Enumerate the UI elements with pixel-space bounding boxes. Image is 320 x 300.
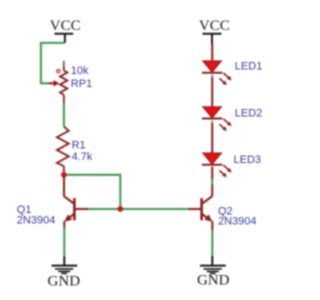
power VCC (left) (50, 18, 81, 43)
wire VCC-left to RP1 wiper (41, 43, 65, 83)
resistive body zigzag (60, 71, 67, 95)
collector lead (202, 196, 213, 204)
LED LED3 (202, 153, 232, 177)
wire LED2 cathode to LED3 anode (211, 121, 213, 153)
emitter lead (202, 214, 210, 220)
pin 1 (top) (63, 61, 65, 67)
svg-text:10k: 10k (71, 65, 89, 77)
svg-text:GND: GND (197, 273, 230, 289)
emission arrows (223, 119, 228, 124)
svg-text:LED1: LED1 (235, 61, 263, 73)
svg-text:RP1: RP1 (71, 78, 92, 90)
transistor Q2 (2N3904) (189, 196, 213, 222)
emitter arrowhead (64, 214, 72, 221)
LED LED2 (202, 107, 232, 131)
wire Q2 emitter to ground (211, 221, 213, 265)
wire LED3 cathode to Q2 collector (211, 167, 213, 197)
svg-text:2N3904: 2N3904 (17, 214, 56, 226)
base pin (74, 208, 88, 210)
wiper arrow pin 2 (49, 82, 54, 84)
collector lead (64, 196, 74, 204)
emission arrows (223, 73, 228, 78)
svg-text:LED3: LED3 (234, 154, 262, 166)
wiper indicator circle (57, 70, 60, 73)
emitter arrowhead (204, 214, 212, 221)
node A junction dot (61, 172, 67, 178)
wire node A to base node (67, 175, 121, 207)
base bar (200, 198, 203, 220)
ground (left) (48, 266, 81, 290)
junction dot (base node) (117, 206, 123, 212)
svg-text:VCC: VCC (50, 18, 81, 34)
base pin (189, 208, 202, 210)
base bar (73, 198, 76, 220)
wire base node to Q2 base (120, 208, 188, 210)
svg-text:4.7k: 4.7k (72, 151, 93, 163)
emitter lead (67, 214, 75, 220)
transistor Q1 (2N3904) (64, 196, 88, 222)
svg-text:VCC: VCC (199, 18, 230, 34)
power VCC (right) (199, 18, 230, 44)
wire LED1 cathode to LED2 anode (211, 75, 213, 107)
ground (right) (197, 266, 230, 289)
wire Q1 emitter to ground (63, 221, 65, 265)
potentiometer RP1 (49, 61, 68, 104)
svg-text:GND: GND (48, 273, 81, 289)
svg-text:2N3904: 2N3904 (218, 215, 257, 227)
wire RP1 to R1 (63, 103, 65, 126)
wire Q1 base (green half) (88, 208, 120, 210)
svg-text:R1: R1 (72, 140, 86, 152)
resistor R1 (57, 127, 69, 173)
svg-text:LED2: LED2 (235, 108, 263, 120)
LED LED1 (202, 61, 232, 85)
wire VCC-right to LED1 anode (211, 44, 213, 61)
wire Q1 collector (63, 177, 65, 196)
emission arrows (223, 165, 228, 170)
pin 3 (bottom) (63, 95, 65, 104)
